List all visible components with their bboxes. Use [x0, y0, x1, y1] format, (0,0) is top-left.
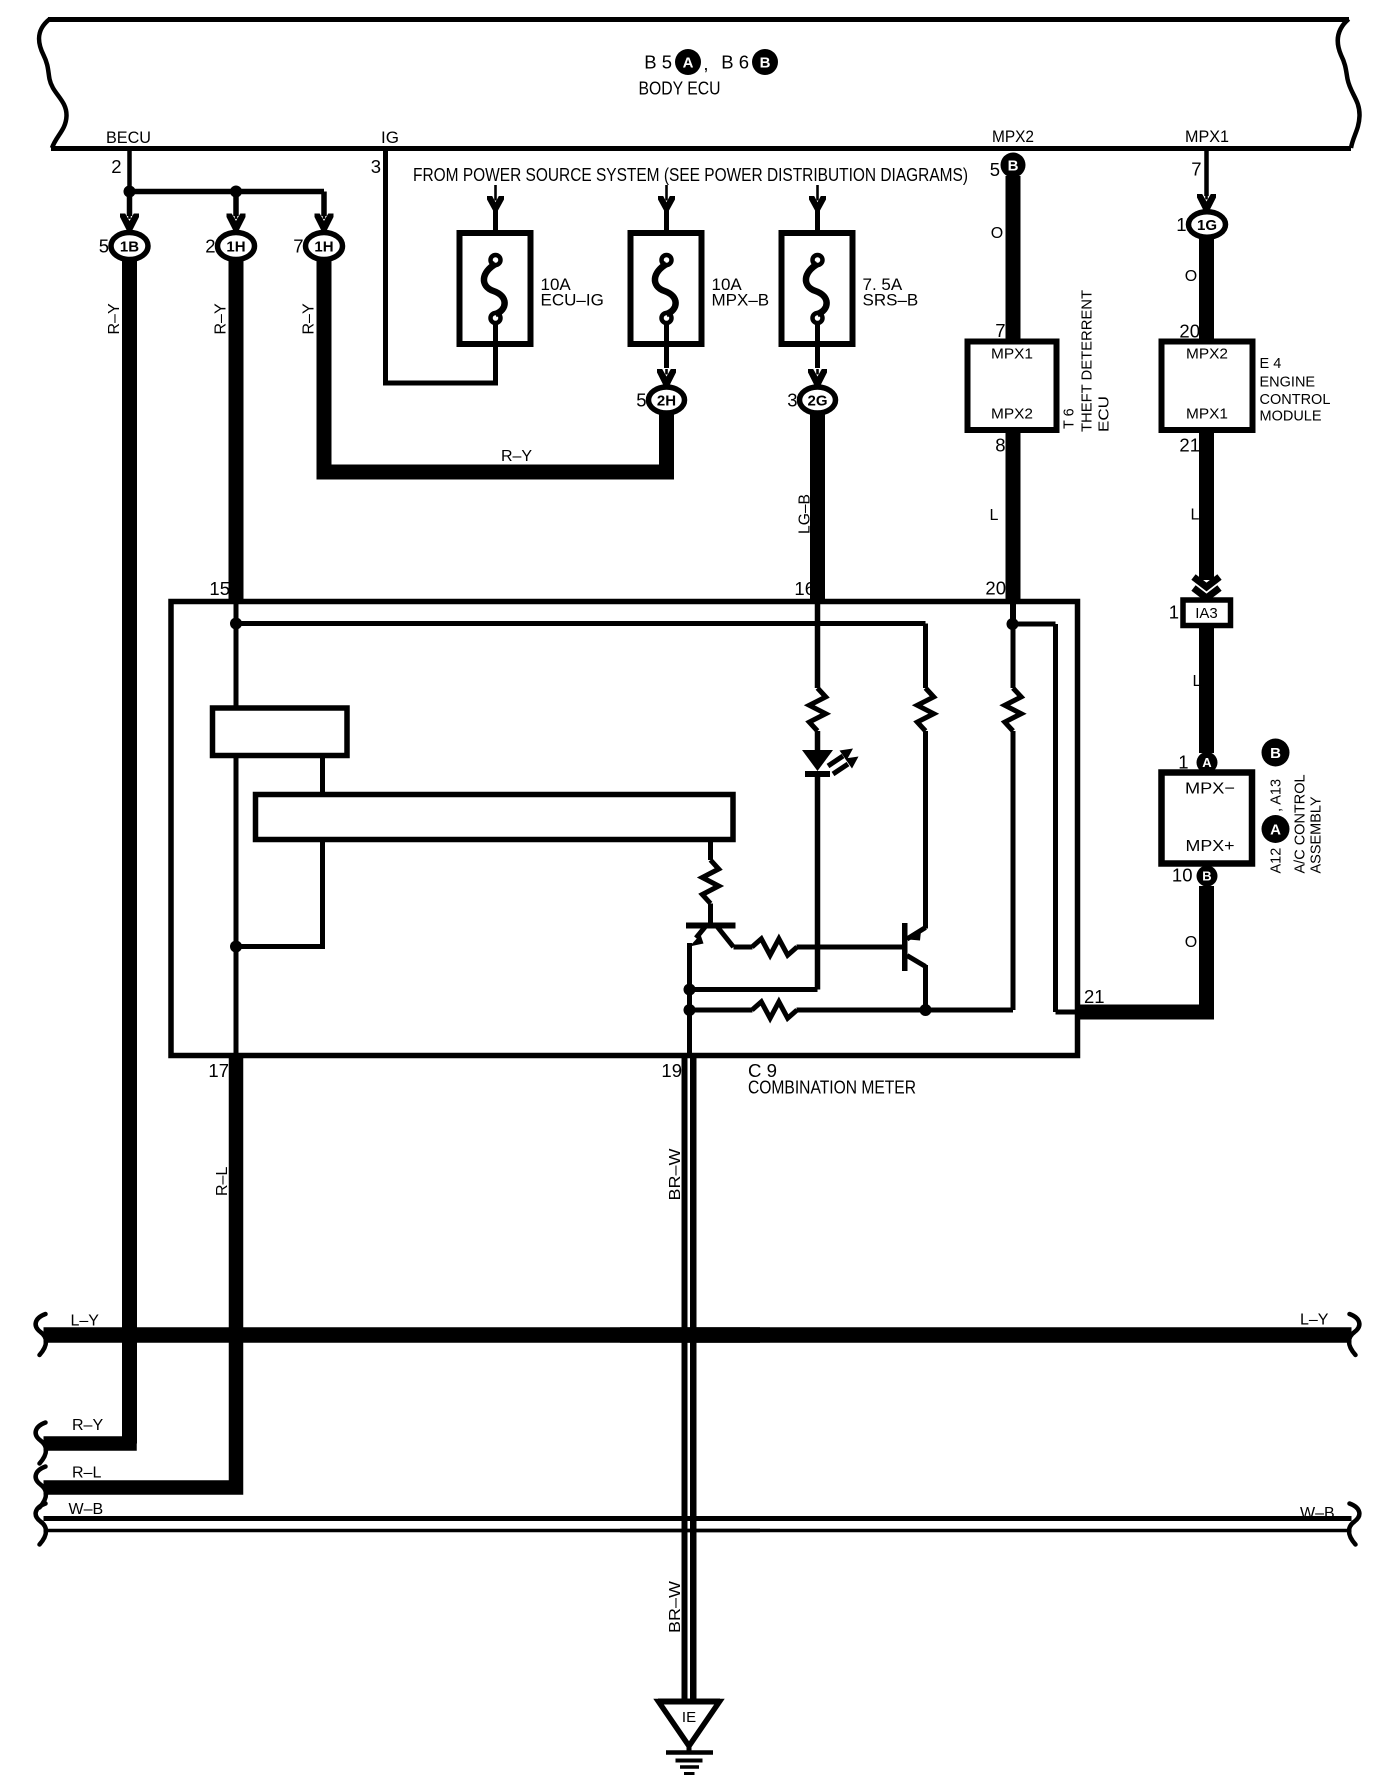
- svg-text:R–Y: R–Y: [106, 303, 123, 334]
- svg-text:W–B: W–B: [1300, 1505, 1335, 1522]
- svg-text:7: 7: [293, 236, 303, 257]
- svg-text:MPX2: MPX2: [1186, 347, 1228, 363]
- svg-text:7: 7: [995, 320, 1005, 341]
- svg-text:MPX+: MPX+: [1186, 838, 1235, 855]
- svg-text:R–L: R–L: [72, 1465, 101, 1482]
- svg-text:ECU: ECU: [1097, 396, 1113, 432]
- svg-text:B 6: B 6: [721, 52, 749, 73]
- svg-text:B: B: [1202, 869, 1211, 884]
- svg-text:17: 17: [208, 1060, 229, 1081]
- svg-text:7: 7: [1191, 159, 1201, 180]
- svg-text:3: 3: [371, 156, 381, 177]
- svg-text:ECU–IG: ECU–IG: [541, 291, 604, 310]
- svg-text:,: ,: [703, 53, 708, 74]
- svg-text:MPX1: MPX1: [991, 347, 1033, 363]
- svg-text:MPX–B: MPX–B: [712, 291, 770, 310]
- svg-text:15: 15: [209, 578, 230, 599]
- svg-text:B: B: [760, 54, 771, 71]
- svg-text:20: 20: [985, 578, 1006, 599]
- svg-text:CONTROL: CONTROL: [1260, 392, 1331, 408]
- svg-text:1: 1: [1176, 214, 1186, 235]
- svg-text:O: O: [1185, 934, 1197, 951]
- svg-text:O: O: [1185, 268, 1197, 285]
- svg-text:MPX−: MPX−: [1185, 781, 1235, 798]
- svg-text:MPX2: MPX2: [992, 127, 1034, 146]
- svg-text:10: 10: [1172, 865, 1193, 886]
- svg-text:A: A: [1202, 755, 1212, 770]
- svg-text:A/C CONTROL: A/C CONTROL: [1293, 774, 1309, 873]
- svg-text:R–Y: R–Y: [212, 303, 229, 334]
- svg-text:R–L: R–L: [214, 1167, 231, 1196]
- svg-text:L–Y: L–Y: [1300, 1312, 1329, 1329]
- svg-text:L: L: [990, 507, 999, 524]
- svg-text:R–Y: R–Y: [300, 303, 317, 334]
- svg-text:5: 5: [99, 236, 109, 257]
- svg-text:2H: 2H: [657, 393, 676, 410]
- svg-text:19: 19: [661, 1060, 682, 1081]
- svg-text:B: B: [1008, 157, 1019, 174]
- svg-text:2: 2: [111, 156, 121, 177]
- svg-text:21: 21: [1179, 435, 1200, 456]
- svg-text:1G: 1G: [1197, 217, 1217, 234]
- svg-text:A: A: [1270, 821, 1281, 838]
- svg-text:ASSEMBLY: ASSEMBLY: [1309, 796, 1325, 873]
- svg-text:SRS–B: SRS–B: [863, 291, 919, 310]
- svg-text:BR–W: BR–W: [667, 1580, 684, 1633]
- svg-text:R–Y: R–Y: [501, 448, 532, 465]
- svg-text:R–Y: R–Y: [72, 1417, 103, 1434]
- svg-text:2G: 2G: [807, 393, 827, 410]
- svg-text:3: 3: [787, 390, 797, 411]
- svg-text:L: L: [1193, 673, 1202, 690]
- svg-text:FROM POWER SOURCE SYSTEM (SEE: FROM POWER SOURCE SYSTEM (SEE POWER DIST…: [413, 165, 968, 185]
- svg-text:LG–B: LG–B: [796, 494, 813, 534]
- svg-text:T 6: T 6: [1062, 408, 1078, 429]
- svg-text:MODULE: MODULE: [1260, 409, 1322, 425]
- svg-text:BODY ECU: BODY ECU: [639, 79, 721, 99]
- svg-text:1H: 1H: [226, 239, 245, 256]
- svg-text:2: 2: [205, 236, 215, 257]
- svg-text:BECU: BECU: [106, 128, 151, 147]
- svg-text:ENGINE: ENGINE: [1260, 375, 1316, 391]
- svg-text:B 5: B 5: [644, 52, 672, 73]
- svg-text:20: 20: [1179, 321, 1200, 342]
- svg-text:A: A: [683, 54, 694, 71]
- svg-text:1B: 1B: [120, 239, 139, 256]
- svg-text:MPX2: MPX2: [991, 407, 1033, 423]
- svg-text:IE: IE: [682, 1709, 696, 1726]
- svg-text:MPX1: MPX1: [1186, 407, 1228, 423]
- svg-text:MPX1: MPX1: [1185, 127, 1229, 146]
- svg-text:IG: IG: [381, 128, 399, 147]
- svg-text:L–Y: L–Y: [71, 1313, 100, 1330]
- svg-text:W–B: W–B: [69, 1501, 104, 1518]
- svg-text:5: 5: [636, 390, 646, 411]
- svg-text:8: 8: [995, 435, 1005, 456]
- svg-text:IA3: IA3: [1195, 605, 1218, 622]
- svg-text:5: 5: [990, 159, 1000, 180]
- svg-text:, A13: , A13: [1269, 779, 1285, 812]
- svg-text:O: O: [991, 225, 1003, 242]
- svg-text:L: L: [1191, 507, 1200, 524]
- svg-text:16: 16: [794, 578, 815, 599]
- svg-text:E 4: E 4: [1260, 356, 1282, 372]
- svg-text:THEFT DETERRENT: THEFT DETERRENT: [1080, 290, 1096, 432]
- svg-text:COMBINATION METER: COMBINATION METER: [748, 1078, 916, 1098]
- svg-text:B: B: [1270, 745, 1281, 762]
- svg-text:1: 1: [1169, 602, 1179, 623]
- svg-text:21: 21: [1084, 986, 1105, 1007]
- svg-text:BR–W: BR–W: [667, 1147, 684, 1200]
- svg-text:A12: A12: [1269, 848, 1285, 874]
- svg-text:1H: 1H: [314, 239, 333, 256]
